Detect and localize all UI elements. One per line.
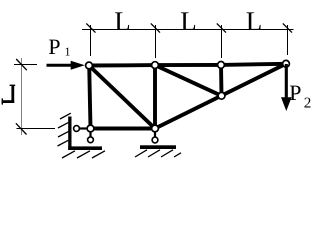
ground hatch 3 [161, 150, 173, 157]
left dim top tick line [14, 64, 37, 66]
label L span2 [181, 12, 195, 30]
wall roller at E [74, 126, 80, 132]
left tick slash top [16, 59, 27, 70]
extension line at x=287 [287, 25, 289, 55]
floor roller at E [88, 137, 94, 143]
ground hatch 2 [148, 150, 160, 157]
ground hatch 1 [135, 150, 147, 157]
member top chord A-D [89, 64, 286, 66]
member A-F diagonal [89, 66, 155, 129]
member C-G [219, 65, 223, 96]
floor bar left support [68, 146, 102, 150]
member bottom chord E-F [91, 127, 156, 131]
extension line at x=221 [221, 25, 223, 58]
member F-D diagonal [155, 64, 286, 129]
floor hatch 1 [62, 151, 75, 158]
wall hatch 1 [60, 113, 71, 119]
node F [152, 125, 159, 132]
node A [86, 62, 93, 69]
support link F to roller [154, 129, 156, 141]
member A-E [89, 66, 90, 129]
label L left (rotated) [2, 85, 16, 105]
ground bar under F [140, 145, 176, 149]
label P2 [290, 86, 301, 100]
ground hatch 4 [174, 153, 181, 157]
label P2 subscript [304, 98, 310, 108]
wall hatch 3 [58, 131, 69, 137]
force P1 arrowhead [71, 61, 85, 70]
tick slash 3 [217, 23, 226, 32]
label P1 subscript [66, 48, 70, 56]
left tick slash bottom [16, 123, 27, 134]
extension line at x=155 [155, 25, 157, 58]
floor hatch 2 [77, 151, 90, 158]
left dim bottom tick line [17, 128, 56, 130]
support link E to floor roller [89, 129, 91, 140]
wall hatch 4 [58, 140, 69, 146]
label L span1 [115, 12, 129, 30]
node E [87, 125, 94, 132]
tick slash 4 [283, 23, 292, 32]
member B-F [153, 65, 157, 128]
tick slash 1 [86, 23, 95, 32]
force P2 arrow shaft [285, 64, 288, 98]
dimension line left [21, 58, 23, 135]
force P1 arrow shaft [47, 64, 73, 67]
node G [218, 92, 225, 99]
force P2 arrowhead [281, 97, 292, 111]
floor hatch 3 [92, 151, 105, 158]
tick slash 2 [151, 23, 160, 32]
dimension line top [82, 29, 294, 31]
support link E to wall roller [77, 127, 91, 129]
node B [152, 62, 159, 69]
node C [218, 62, 225, 69]
label P1 [49, 40, 60, 54]
node D [283, 60, 290, 67]
roller under F [152, 137, 158, 143]
wall bar left support [68, 117, 71, 151]
member B-G diagonal [155, 65, 222, 96]
extension line at x=90 [90, 25, 92, 56]
label L span3 [247, 12, 261, 30]
wall hatch 2 [58, 122, 69, 128]
